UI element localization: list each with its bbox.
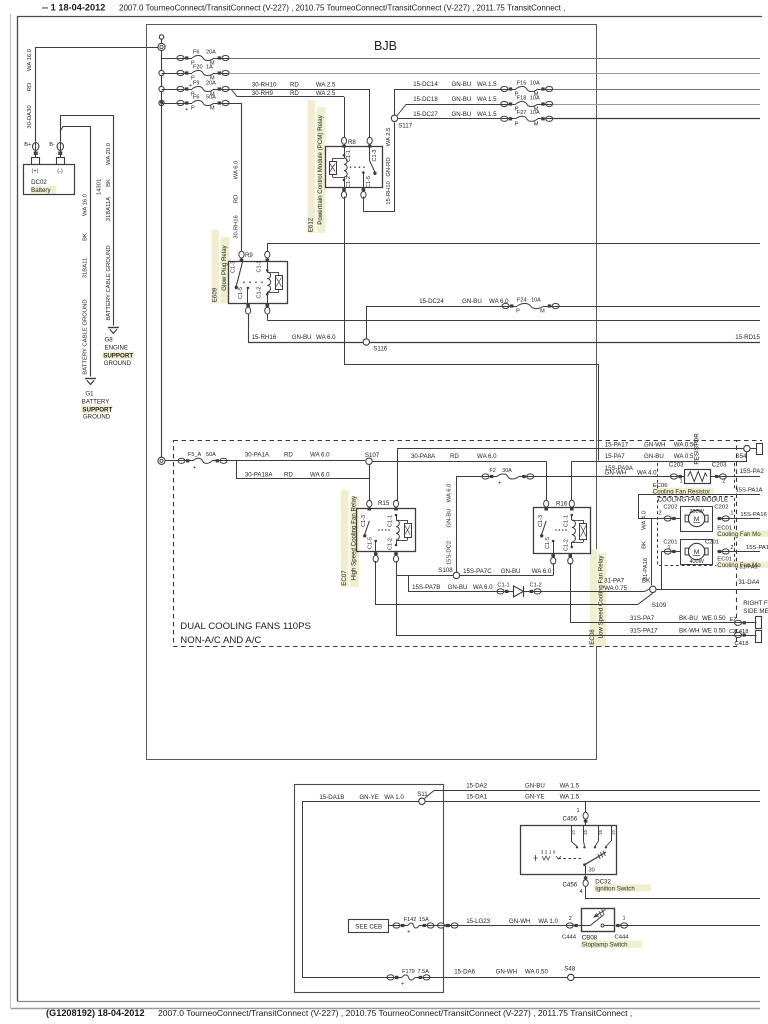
svg-text:15S-PA2: 15S-PA2 bbox=[740, 468, 765, 475]
svg-text:C444: C444 bbox=[615, 935, 630, 941]
svg-text:WA 2.5: WA 2.5 bbox=[316, 90, 336, 97]
svg-text:C1-2: C1-2 bbox=[256, 286, 262, 298]
svg-text:F6: F6 bbox=[193, 49, 199, 55]
svg-text:RESISTOR: RESISTOR bbox=[694, 433, 701, 465]
svg-text:G1: G1 bbox=[85, 391, 94, 398]
svg-text:GN-BU: GN-BU bbox=[462, 298, 482, 305]
svg-text:P: P bbox=[191, 106, 195, 112]
svg-text:SUPPORT: SUPPORT bbox=[82, 407, 112, 414]
svg-text:WA 6.0: WA 6.0 bbox=[316, 334, 336, 341]
svg-text:CB08: CB08 bbox=[582, 934, 598, 941]
svg-text:15-DC18: 15-DC18 bbox=[413, 96, 438, 103]
svg-text:15: 15 bbox=[598, 830, 603, 835]
svg-text:15-DA2: 15-DA2 bbox=[466, 783, 487, 790]
svg-text:F5_A: F5_A bbox=[188, 452, 202, 458]
svg-text:15-PA7: 15-PA7 bbox=[605, 453, 626, 460]
svg-text:C202: C202 bbox=[714, 505, 728, 511]
svg-text:SIDE MEM: SIDE MEM bbox=[743, 608, 768, 615]
svg-text:M: M bbox=[540, 309, 545, 315]
svg-text:GN-RD: GN-RD bbox=[386, 157, 392, 176]
svg-text:BATTERY CABLE GROUND: BATTERY CABLE GROUND bbox=[106, 245, 112, 320]
svg-text:GN-BU: GN-BU bbox=[644, 453, 664, 460]
svg-text:20A: 20A bbox=[206, 80, 216, 86]
svg-text:C1-5: C1-5 bbox=[366, 176, 372, 188]
svg-text:WA 0.75: WA 0.75 bbox=[604, 585, 628, 592]
svg-text:S48: S48 bbox=[564, 965, 576, 972]
svg-text:COOLING FAN MODULE: COOLING FAN MODULE bbox=[658, 497, 728, 504]
svg-text:WA 6.0: WA 6.0 bbox=[310, 452, 330, 459]
svg-text:WA 1.0: WA 1.0 bbox=[384, 794, 404, 801]
svg-text:R16: R16 bbox=[556, 501, 568, 508]
svg-text:GN-YE: GN-YE bbox=[359, 794, 378, 801]
svg-text:M: M bbox=[694, 516, 699, 523]
svg-text:(-): (-) bbox=[57, 169, 63, 175]
svg-text:GN-WH: GN-WH bbox=[496, 969, 517, 976]
svg-text:SUPPORT: SUPPORT bbox=[103, 353, 133, 360]
svg-text:DUAL COOLING FANS 110PS: DUAL COOLING FANS 110PS bbox=[180, 621, 311, 632]
svg-text:50A: 50A bbox=[206, 452, 216, 458]
svg-text:WA 4.0: WA 4.0 bbox=[637, 469, 657, 476]
svg-text:BATTERY: BATTERY bbox=[82, 399, 110, 406]
svg-text:WA 6.0: WA 6.0 bbox=[477, 453, 497, 460]
svg-text:GN-BU: GN-BU bbox=[452, 111, 472, 118]
svg-text:RD: RD bbox=[234, 195, 240, 204]
svg-text:C203: C203 bbox=[712, 462, 727, 469]
svg-text:4: 4 bbox=[580, 889, 583, 895]
svg-text:RD: RD bbox=[284, 471, 293, 478]
svg-text:200W: 200W bbox=[689, 509, 704, 515]
svg-text:GN-BU: GN-BU bbox=[448, 584, 468, 591]
svg-text:E612: E612 bbox=[308, 217, 315, 232]
svg-text:15: 15 bbox=[610, 830, 615, 835]
svg-text:C1-1: C1-1 bbox=[497, 583, 509, 589]
svg-text:RD: RD bbox=[284, 452, 293, 459]
svg-text:15S-DC2: 15S-DC2 bbox=[446, 541, 452, 565]
svg-text:15-PA17: 15-PA17 bbox=[605, 441, 629, 448]
svg-text:15-DA6: 15-DA6 bbox=[454, 969, 475, 976]
svg-text:G8: G8 bbox=[105, 337, 114, 344]
svg-text:F2: F2 bbox=[489, 468, 495, 474]
svg-text:C456: C456 bbox=[563, 816, 578, 823]
svg-text:15S-PA15: 15S-PA15 bbox=[746, 545, 768, 551]
svg-text:C1-2: C1-2 bbox=[564, 539, 570, 551]
svg-text:F179: F179 bbox=[402, 969, 415, 975]
svg-text:C1-3: C1-3 bbox=[231, 261, 237, 273]
svg-text:F20: F20 bbox=[193, 64, 203, 70]
svg-text:C1-5: C1-5 bbox=[368, 537, 374, 549]
svg-text:BK-BU: BK-BU bbox=[679, 615, 698, 622]
svg-text:15: 15 bbox=[570, 830, 575, 835]
svg-text:F6: F6 bbox=[193, 94, 199, 100]
svg-text:30A: 30A bbox=[502, 468, 512, 474]
svg-text:RD: RD bbox=[290, 82, 299, 89]
svg-text:31-DA4: 31-DA4 bbox=[738, 579, 759, 586]
svg-text:30: 30 bbox=[589, 867, 595, 873]
svg-text:10A: 10A bbox=[531, 297, 541, 303]
svg-text:WA 6.0: WA 6.0 bbox=[310, 471, 330, 478]
svg-text:C1-2: C1-2 bbox=[530, 583, 542, 589]
svg-text:Battery: Battery bbox=[31, 187, 51, 194]
svg-text:10A: 10A bbox=[530, 95, 540, 101]
svg-text:Glow Plug Relay: Glow Plug Relay bbox=[221, 244, 228, 290]
svg-text:30-RH10: 30-RH10 bbox=[252, 82, 277, 89]
svg-text:WA 6.0: WA 6.0 bbox=[234, 160, 240, 179]
svg-text:WA 0.5: WA 0.5 bbox=[674, 453, 694, 460]
svg-text:WA 1.5: WA 1.5 bbox=[560, 794, 580, 801]
svg-text:F16: F16 bbox=[517, 80, 527, 86]
svg-text:15S-PA1A: 15S-PA1A bbox=[736, 487, 763, 493]
svg-text:GROUND: GROUND bbox=[83, 414, 111, 421]
svg-text:C1-1: C1-1 bbox=[346, 150, 352, 162]
svg-text:3 2 1 0: 3 2 1 0 bbox=[541, 850, 556, 856]
svg-text:1: 1 bbox=[680, 479, 683, 485]
svg-text:14301: 14301 bbox=[97, 179, 103, 195]
svg-text:GN-BU: GN-BU bbox=[446, 509, 452, 528]
svg-text:30-RH16: 30-RH16 bbox=[234, 214, 240, 238]
svg-text:2: 2 bbox=[659, 511, 662, 517]
svg-text:400W: 400W bbox=[689, 559, 704, 565]
svg-text:C456: C456 bbox=[563, 881, 578, 888]
svg-text:S117: S117 bbox=[398, 123, 412, 130]
svg-text:(+): (+) bbox=[32, 169, 39, 175]
svg-text:WA 6.0: WA 6.0 bbox=[473, 584, 493, 591]
svg-text:C1-1: C1-1 bbox=[387, 515, 393, 527]
svg-text:S54: S54 bbox=[736, 453, 748, 460]
svg-text:C1-5: C1-5 bbox=[238, 287, 244, 299]
svg-text:R15: R15 bbox=[378, 500, 390, 507]
svg-text:10A: 10A bbox=[530, 80, 540, 86]
svg-text:GN-BU: GN-BU bbox=[501, 568, 521, 575]
svg-text:RIGHT FR: RIGHT FR bbox=[743, 600, 768, 607]
svg-text:GN-WH: GN-WH bbox=[509, 918, 531, 925]
svg-text:15-DC27: 15-DC27 bbox=[413, 111, 438, 118]
svg-text:BK: BK bbox=[642, 541, 648, 549]
svg-text:30-DA30: 30-DA30 bbox=[27, 105, 33, 129]
svg-text:-- 1 18-04-2012: -- 1 18-04-2012 bbox=[42, 3, 105, 13]
svg-text:Ignition Switch: Ignition Switch bbox=[595, 885, 635, 892]
svg-text:1A: 1A bbox=[206, 64, 213, 70]
svg-text:C1-3: C1-3 bbox=[538, 515, 544, 527]
svg-text:C203: C203 bbox=[669, 462, 684, 469]
svg-text:WA 20.0: WA 20.0 bbox=[106, 142, 112, 165]
svg-text:B+: B+ bbox=[24, 142, 32, 148]
svg-text:31S-PA7: 31S-PA7 bbox=[630, 615, 655, 622]
svg-text:M: M bbox=[210, 106, 215, 112]
svg-text:F27: F27 bbox=[517, 110, 527, 116]
svg-text:15-RD15: 15-RD15 bbox=[735, 334, 760, 341]
svg-text:R9: R9 bbox=[245, 252, 253, 259]
svg-text:R8: R8 bbox=[348, 139, 356, 146]
svg-text:SEE CEB: SEE CEB bbox=[355, 924, 382, 931]
svg-text:50A: 50A bbox=[206, 94, 216, 100]
svg-text:2007.0 TourneoConnect/TransitC: 2007.0 TourneoConnect/TransitConnect (V-… bbox=[119, 4, 565, 13]
svg-text:GN-BU: GN-BU bbox=[452, 81, 472, 88]
svg-text:Cooling Fan Mo: Cooling Fan Mo bbox=[717, 531, 761, 538]
svg-text:1: 1 bbox=[730, 511, 733, 517]
svg-text:WA 1.5: WA 1.5 bbox=[477, 96, 497, 103]
svg-text:M: M bbox=[534, 121, 539, 127]
svg-text:BATTERY CABLE GROUND: BATTERY CABLE GROUND bbox=[83, 299, 89, 374]
svg-text:C1-2: C1-2 bbox=[387, 538, 393, 550]
svg-text:15S-PA7B: 15S-PA7B bbox=[412, 584, 440, 591]
svg-text:P: P bbox=[515, 121, 519, 127]
svg-text:BK: BK bbox=[83, 233, 89, 241]
svg-text:WE 0.50: WE 0.50 bbox=[702, 627, 726, 634]
svg-text:15-DC24: 15-DC24 bbox=[419, 298, 444, 305]
svg-text:WA 1.0: WA 1.0 bbox=[538, 918, 558, 925]
svg-text:GN-BU: GN-BU bbox=[452, 96, 472, 103]
svg-text:GN-YE: GN-YE bbox=[525, 794, 544, 801]
svg-text:WA 6.0: WA 6.0 bbox=[532, 568, 552, 575]
svg-text:WA 1.5: WA 1.5 bbox=[477, 81, 497, 88]
svg-text:F9: F9 bbox=[193, 80, 199, 86]
svg-text:P: P bbox=[516, 309, 520, 315]
svg-text:31-PA7: 31-PA7 bbox=[604, 578, 625, 585]
svg-text:EC08: EC08 bbox=[589, 629, 596, 645]
svg-text:C1-3: C1-3 bbox=[361, 515, 367, 527]
svg-text:B-: B- bbox=[49, 142, 55, 148]
svg-text:C1-5: C1-5 bbox=[545, 537, 551, 549]
svg-text:15: 15 bbox=[583, 830, 588, 835]
svg-text:WE 0.50: WE 0.50 bbox=[702, 615, 726, 622]
svg-text:WA 1.5: WA 1.5 bbox=[560, 783, 580, 790]
svg-text:WA 1.5: WA 1.5 bbox=[477, 111, 497, 118]
svg-text:WA 0.50: WA 0.50 bbox=[525, 969, 549, 976]
svg-text:RD: RD bbox=[450, 453, 459, 460]
svg-text:2007.0 TourneoConnect/TransitC: 2007.0 TourneoConnect/TransitConnect (V-… bbox=[158, 1008, 632, 1018]
svg-text:GROUND: GROUND bbox=[104, 360, 132, 367]
svg-text:(G1208192) 18-04-2012: (G1208192) 18-04-2012 bbox=[46, 1008, 145, 1018]
svg-text:31BA11: 31BA11 bbox=[83, 258, 89, 279]
svg-text:15S-PA16: 15S-PA16 bbox=[740, 512, 767, 518]
svg-text:WA 16.0: WA 16.0 bbox=[83, 193, 89, 216]
svg-text:S107: S107 bbox=[365, 452, 380, 459]
svg-text:RD: RD bbox=[27, 83, 33, 92]
svg-text:ENGINE: ENGINE bbox=[105, 345, 129, 352]
svg-text:F142: F142 bbox=[404, 917, 417, 923]
svg-text:M: M bbox=[694, 549, 699, 556]
svg-text:C1-3: C1-3 bbox=[372, 149, 378, 161]
svg-text:WA 4.0: WA 4.0 bbox=[642, 510, 648, 529]
svg-text:30-PA1A: 30-PA1A bbox=[245, 452, 270, 459]
svg-text:C418: C418 bbox=[735, 641, 750, 647]
svg-text:C1-2: C1-2 bbox=[346, 176, 352, 188]
svg-text:BJB: BJB bbox=[374, 39, 397, 53]
svg-text:10A: 10A bbox=[530, 110, 540, 116]
svg-text:E609: E609 bbox=[212, 287, 219, 302]
svg-text:S116: S116 bbox=[373, 346, 387, 353]
svg-text:C1-1: C1-1 bbox=[564, 515, 570, 527]
svg-text:15-DA1: 15-DA1 bbox=[466, 794, 487, 801]
svg-text:15-RH16: 15-RH16 bbox=[252, 334, 277, 341]
svg-text:30-RH9: 30-RH9 bbox=[252, 90, 274, 97]
svg-text:30-PA18A: 30-PA18A bbox=[245, 471, 273, 478]
svg-text:Low Speed Cooling Fan Relay: Low Speed Cooling Fan Relay bbox=[598, 555, 605, 639]
svg-text:15A: 15A bbox=[419, 917, 429, 923]
svg-text:15-LG23: 15-LG23 bbox=[466, 918, 490, 925]
svg-text:31-PA16: 31-PA16 bbox=[643, 557, 649, 580]
svg-text:15-DC14: 15-DC14 bbox=[413, 81, 438, 88]
svg-text:EC07: EC07 bbox=[341, 570, 348, 586]
svg-text:DC32: DC32 bbox=[595, 878, 611, 885]
svg-text:WA 2.5: WA 2.5 bbox=[386, 127, 392, 146]
svg-text:BK: BK bbox=[106, 179, 112, 187]
svg-text:WA 2.5: WA 2.5 bbox=[316, 82, 336, 89]
svg-text:20A: 20A bbox=[206, 49, 216, 55]
svg-text:1: 1 bbox=[623, 915, 626, 921]
svg-text:S108: S108 bbox=[438, 567, 453, 574]
svg-text:Stoplamp Switch: Stoplamp Switch bbox=[582, 942, 628, 949]
svg-text:C202: C202 bbox=[663, 505, 677, 511]
svg-text:15-RH10: 15-RH10 bbox=[386, 180, 392, 204]
svg-text:GN-BU: GN-BU bbox=[292, 334, 312, 341]
svg-text:2: 2 bbox=[730, 545, 733, 551]
svg-text:15-DA1B: 15-DA1B bbox=[319, 794, 344, 801]
svg-text:WA 16.0: WA 16.0 bbox=[27, 48, 33, 71]
svg-text:GN-BU: GN-BU bbox=[525, 783, 545, 790]
svg-text:BK-WH: BK-WH bbox=[679, 627, 699, 634]
svg-text:31-PA9: 31-PA9 bbox=[740, 565, 758, 571]
svg-text:Powertrain Control Module (PCM: Powertrain Control Module (PCM) Relay bbox=[317, 114, 324, 224]
svg-text:15S-PA7C: 15S-PA7C bbox=[463, 568, 492, 575]
svg-text:NON-A/C AND A/C: NON-A/C AND A/C bbox=[180, 635, 261, 646]
svg-text:2: 2 bbox=[569, 916, 572, 922]
svg-text:1: 1 bbox=[577, 808, 580, 814]
svg-text:30-PA8A: 30-PA8A bbox=[411, 453, 436, 460]
svg-text:WA 6.0: WA 6.0 bbox=[446, 483, 452, 502]
svg-text:DC02: DC02 bbox=[31, 179, 47, 186]
svg-text:31BA11A: 31BA11A bbox=[106, 197, 112, 222]
svg-text:F18: F18 bbox=[517, 95, 527, 101]
svg-text:C1-1: C1-1 bbox=[256, 260, 262, 272]
svg-text:S109: S109 bbox=[652, 602, 667, 609]
svg-text:31S-PA17: 31S-PA17 bbox=[630, 627, 658, 634]
svg-text:F24: F24 bbox=[517, 297, 527, 303]
svg-text:RD: RD bbox=[290, 90, 299, 97]
svg-text:GN-WH: GN-WH bbox=[644, 441, 666, 448]
svg-text:C444: C444 bbox=[562, 935, 577, 941]
svg-text:GN-WH: GN-WH bbox=[605, 469, 627, 476]
svg-text:7.5A: 7.5A bbox=[418, 969, 430, 975]
